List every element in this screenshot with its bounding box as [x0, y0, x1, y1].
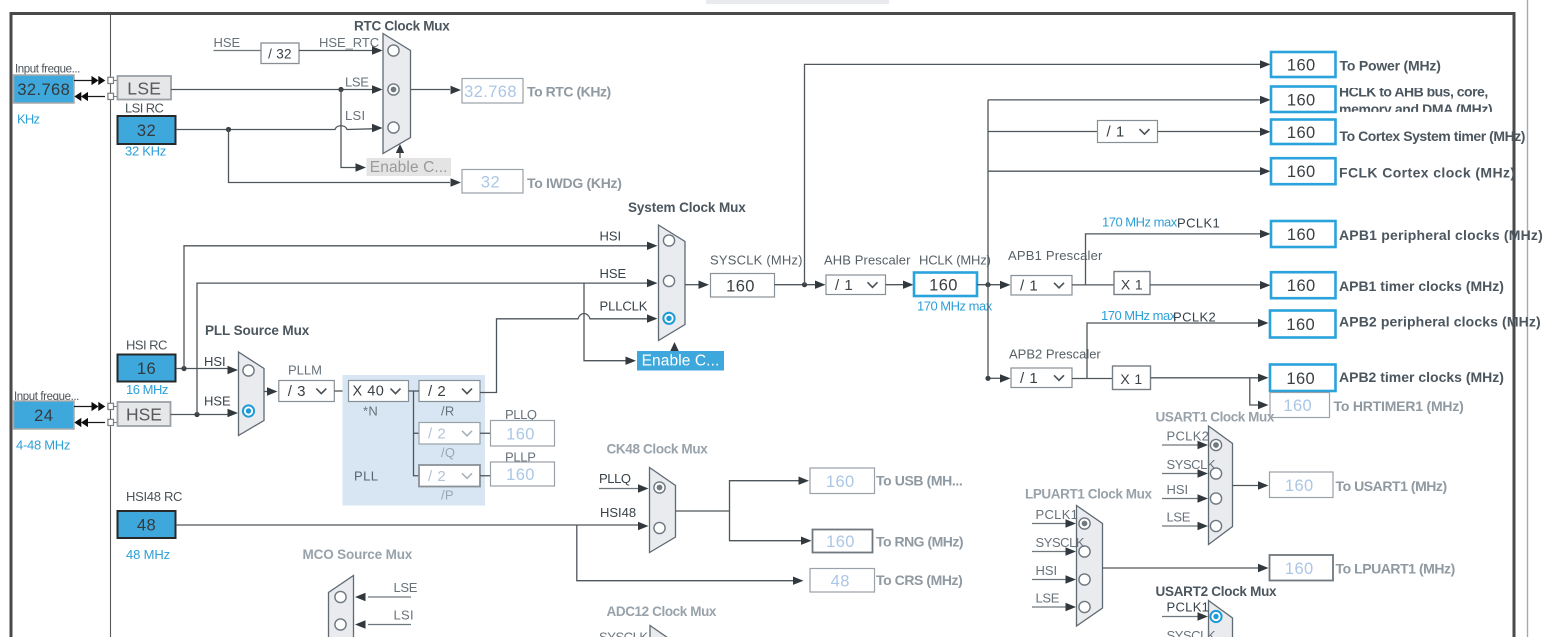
svg-text:LSI RC: LSI RC	[125, 101, 164, 116]
svg-text:APB1 Prescaler: APB1 Prescaler	[1008, 248, 1103, 263]
svg-text:USART1 Clock Mux: USART1 Clock Mux	[1156, 410, 1275, 425]
svg-text:PLL Source Mux: PLL Source Mux	[205, 323, 310, 338]
svg-text:To LPUART1 (MHz): To LPUART1 (MHz)	[1336, 561, 1455, 577]
svg-text:170 MHz max: 170 MHz max	[1101, 308, 1177, 323]
svg-text:160: 160	[1287, 226, 1316, 244]
svg-text:32.768: 32.768	[17, 81, 70, 99]
svg-text:LSI: LSI	[345, 108, 365, 123]
svg-text:MCO Source Mux: MCO Source Mux	[303, 547, 413, 562]
svg-text:/ 1: / 1	[835, 277, 853, 294]
svg-text:To USART1 (MHz): To USART1 (MHz)	[1336, 478, 1447, 494]
svg-text:APB1 timer clocks (MHz): APB1 timer clocks (MHz)	[1339, 278, 1504, 294]
svg-text:RTC Clock Mux: RTC Clock Mux	[354, 19, 450, 34]
svg-text:APB2 peripheral clocks (MHz): APB2 peripheral clocks (MHz)	[1339, 314, 1541, 330]
svg-text:LSE: LSE	[394, 580, 418, 595]
svg-text:170 MHz max: 170 MHz max	[1102, 215, 1178, 230]
svg-text:PCLK1: PCLK1	[1036, 507, 1079, 522]
svg-text:To IWDG (KHz): To IWDG (KHz)	[527, 175, 622, 191]
svg-text:160: 160	[1287, 91, 1316, 109]
svg-text:LSE: LSE	[345, 75, 369, 90]
svg-text:SYSCLK: SYSCLK	[1167, 628, 1216, 637]
svg-text:160: 160	[1286, 316, 1315, 334]
svg-text:16 MHz: 16 MHz	[126, 382, 168, 397]
svg-text:/ 2: / 2	[428, 425, 446, 442]
svg-text:LSE: LSE	[1167, 510, 1191, 525]
svg-text:Enable C...: Enable C...	[642, 353, 720, 370]
svg-text:PLL: PLL	[354, 469, 378, 484]
svg-text:4-48 MHz: 4-48 MHz	[16, 438, 70, 453]
svg-text:160: 160	[929, 276, 958, 294]
svg-text:/R: /R	[441, 404, 455, 419]
svg-text:X 1: X 1	[1121, 276, 1143, 292]
svg-text:LSE: LSE	[1036, 591, 1060, 606]
svg-text:32: 32	[481, 173, 500, 191]
svg-text:160: 160	[1286, 370, 1315, 388]
svg-text:160: 160	[1287, 277, 1316, 295]
svg-text:X 1: X 1	[1120, 371, 1142, 387]
svg-text:LPUART1 Clock Mux: LPUART1 Clock Mux	[1025, 487, 1152, 502]
svg-text:HSE: HSE	[204, 394, 231, 409]
svg-text:To HRTIMER1 (MHz): To HRTIMER1 (MHz)	[1334, 398, 1464, 414]
svg-text:HSI: HSI	[1167, 482, 1189, 497]
svg-text:SYSCLK: SYSCLK	[1167, 457, 1216, 472]
svg-text:KHz: KHz	[17, 112, 40, 127]
svg-text:CK48 Clock Mux: CK48 Clock Mux	[607, 442, 709, 457]
svg-text:160: 160	[826, 533, 855, 551]
svg-text:/P: /P	[441, 488, 454, 503]
svg-text:160: 160	[1285, 560, 1314, 578]
svg-text:HSE_RTC: HSE_RTC	[319, 35, 379, 50]
svg-text:160: 160	[1287, 163, 1316, 181]
svg-text:*N: *N	[363, 404, 378, 419]
svg-text:PLLQ: PLLQ	[599, 471, 631, 486]
svg-text:To USB (MH...: To USB (MH...	[876, 473, 962, 489]
svg-text:32: 32	[137, 122, 156, 140]
svg-text:Enable C...: Enable C...	[370, 159, 448, 176]
svg-text:APB2 timer clocks (MHz): APB2 timer clocks (MHz)	[1339, 369, 1504, 385]
svg-text:FCLK Cortex clock (MHz): FCLK Cortex clock (MHz)	[1339, 165, 1515, 181]
svg-text:PLLCLK: PLLCLK	[600, 299, 648, 314]
svg-text:HSI48: HSI48	[600, 505, 636, 520]
svg-text:/Q: /Q	[441, 445, 455, 460]
svg-text:160: 160	[1285, 477, 1314, 495]
svg-text:32.768: 32.768	[464, 83, 517, 101]
svg-text:To Power (MHz): To Power (MHz)	[1340, 58, 1441, 74]
svg-text:160: 160	[1283, 397, 1312, 415]
svg-text:32 KHz: 32 KHz	[125, 144, 166, 159]
svg-text:PLLM: PLLM	[288, 363, 322, 378]
svg-text:SYSCLK (MHz): SYSCLK (MHz)	[710, 253, 803, 268]
svg-text:PCLK1: PCLK1	[1177, 216, 1220, 231]
svg-text:HSE: HSE	[600, 266, 627, 281]
svg-text:HCLK (MHz): HCLK (MHz)	[919, 253, 991, 268]
svg-text:24: 24	[34, 407, 53, 425]
svg-text:HSI: HSI	[1036, 563, 1058, 578]
svg-text:USART2 Clock Mux: USART2 Clock Mux	[1156, 584, 1278, 599]
svg-text:ADC12 Clock Mux: ADC12 Clock Mux	[607, 604, 717, 619]
svg-text:/ 1: / 1	[1020, 370, 1038, 387]
svg-text:16: 16	[137, 360, 156, 378]
svg-text:HSE: HSE	[214, 35, 241, 50]
svg-text:160: 160	[826, 473, 855, 491]
svg-text:48 MHz: 48 MHz	[126, 547, 170, 562]
svg-text:HSI: HSI	[600, 229, 622, 244]
svg-text:160: 160	[1287, 124, 1316, 142]
svg-text:160: 160	[726, 277, 755, 295]
svg-text:48: 48	[137, 517, 156, 535]
svg-text:LSE: LSE	[127, 78, 161, 98]
svg-text:/ 1: / 1	[1020, 277, 1038, 294]
svg-text:/ 32: / 32	[268, 46, 292, 61]
svg-text:To RTC (KHz): To RTC (KHz)	[527, 84, 611, 100]
svg-text:APB1 peripheral clocks (MHz): APB1 peripheral clocks (MHz)	[1339, 227, 1543, 243]
svg-text:PLLQ: PLLQ	[505, 407, 537, 422]
svg-text:System Clock Mux: System Clock Mux	[628, 200, 746, 215]
svg-text:HSE: HSE	[126, 405, 162, 425]
svg-text:SYSCLK: SYSCLK	[1036, 535, 1085, 550]
svg-text:48: 48	[831, 572, 850, 590]
svg-text:PCLK1: PCLK1	[1167, 600, 1210, 615]
svg-text:To RNG (MHz): To RNG (MHz)	[876, 534, 963, 550]
svg-text:HSI RC: HSI RC	[126, 338, 167, 353]
svg-text:PCLK2: PCLK2	[1173, 310, 1216, 325]
svg-text:X 40: X 40	[353, 384, 385, 400]
svg-text:/ 2: / 2	[428, 468, 446, 485]
svg-text:HSI: HSI	[204, 354, 226, 369]
svg-text:SYSCLK: SYSCLK	[599, 630, 648, 637]
svg-text:Input freque...: Input freque...	[15, 64, 80, 76]
svg-text:/ 1: / 1	[1107, 124, 1125, 141]
svg-text:LSI: LSI	[394, 608, 414, 623]
svg-text:To Cortex System timer (MHz): To Cortex System timer (MHz)	[1340, 128, 1526, 144]
svg-text:/ 3: / 3	[288, 383, 306, 400]
svg-text:AHB Prescaler: AHB Prescaler	[824, 253, 911, 268]
svg-text:PCLK2: PCLK2	[1167, 429, 1210, 444]
svg-text:160: 160	[506, 425, 535, 443]
svg-text:160: 160	[1287, 57, 1316, 75]
svg-text:160: 160	[506, 466, 535, 484]
svg-text:170 MHz max: 170 MHz max	[917, 299, 993, 314]
svg-text:/ 2: / 2	[428, 383, 446, 400]
svg-text:HSI48 RC: HSI48 RC	[126, 489, 182, 504]
svg-text:To CRS (MHz): To CRS (MHz)	[876, 572, 962, 588]
